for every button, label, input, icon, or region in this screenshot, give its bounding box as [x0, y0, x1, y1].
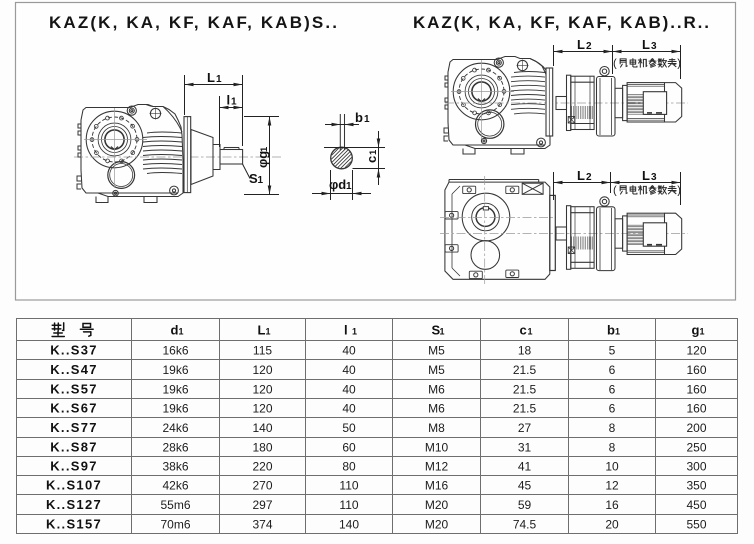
motor body	[627, 83, 664, 122]
motor fins (horizontal)	[627, 225, 643, 245]
bell rib hatch	[572, 237, 593, 250]
right-top side tabs	[444, 76, 448, 141]
left top lug hole	[150, 108, 160, 118]
svg-text:8: 8	[609, 441, 616, 455]
lifting eye	[600, 197, 609, 206]
svg-text:M8: M8	[428, 421, 445, 435]
svg-text:140: 140	[339, 518, 359, 532]
svg-text:1: 1	[231, 97, 237, 108]
right-top bore keyway	[478, 99, 485, 102]
bell clamp detail	[568, 117, 575, 124]
svg-text:K..S57: K..S57	[50, 382, 98, 397]
svg-text:L: L	[642, 37, 650, 52]
label S1 with leader	[243, 164, 251, 179]
svg-text:74.5: 74.5	[513, 518, 537, 532]
svg-text:M5: M5	[428, 363, 445, 377]
motor cap	[665, 83, 682, 122]
motor front flange	[623, 85, 628, 120]
svg-text:1: 1	[258, 175, 264, 186]
svg-text:16: 16	[605, 498, 619, 512]
svg-text:6: 6	[609, 383, 616, 397]
left flange bolt holes	[90, 116, 139, 163]
dimension c1	[324, 131, 385, 185]
svg-text:φd: φd	[329, 177, 346, 192]
svg-text:1: 1	[259, 146, 270, 152]
drawing area frame	[16, 3, 736, 301]
svg-text:20: 20	[605, 518, 619, 532]
svg-text:b: b	[355, 110, 363, 125]
motor mounting boss	[615, 88, 623, 117]
motor terminal box	[643, 223, 666, 246]
svg-text:21.5: 21.5	[513, 383, 537, 397]
svg-text:27: 27	[518, 421, 532, 435]
svg-text:l: l	[344, 323, 348, 338]
svg-text:19k6: 19k6	[162, 383, 188, 397]
svg-text:115: 115	[253, 344, 272, 358]
left ribbed cone fins	[143, 132, 182, 174]
svg-text:c: c	[364, 156, 379, 163]
svg-text:1: 1	[179, 327, 184, 337]
svg-text:21.5: 21.5	[513, 363, 537, 377]
label phi-g1	[255, 146, 270, 168]
right-top bottom bolts	[537, 138, 546, 147]
svg-text:28k6: 28k6	[162, 441, 188, 455]
left output shaft with key	[220, 150, 243, 165]
svg-text:(: (	[613, 185, 617, 197]
svg-text:K..S67: K..S67	[50, 401, 98, 416]
right-top end plate	[546, 68, 553, 136]
shaft cross-section circle	[331, 147, 353, 169]
svg-text:3: 3	[651, 172, 657, 183]
svg-text:21.5: 21.5	[513, 402, 537, 416]
svg-text:16k6: 16k6	[162, 344, 188, 358]
right-top dimension extension lines	[554, 45, 681, 79]
svg-text:): )	[677, 185, 681, 197]
svg-text:L: L	[642, 168, 650, 183]
svg-text:140: 140	[252, 421, 272, 435]
left output cone	[191, 130, 213, 185]
svg-text:1: 1	[440, 327, 445, 337]
right-top lug hole	[517, 60, 527, 70]
svg-text:70m6: 70m6	[160, 518, 190, 532]
svg-text:M6: M6	[428, 383, 445, 397]
coupling bell housing	[567, 206, 571, 270]
left housing side tabs	[77, 124, 81, 189]
svg-text:55m6: 55m6	[160, 498, 190, 512]
svg-text:59: 59	[518, 498, 532, 512]
svg-text:40: 40	[342, 363, 356, 377]
svg-text:19k6: 19k6	[162, 363, 188, 377]
svg-text:80: 80	[342, 460, 356, 474]
coupling neck	[556, 97, 567, 110]
svg-text:374: 374	[252, 518, 272, 532]
svg-text:220: 220	[252, 460, 272, 474]
left flange centerlines	[84, 139, 147, 141]
svg-text:200: 200	[686, 421, 706, 435]
svg-text:KAZ(K, KA, KF, KAF, KAB)..R..: KAZ(K, KA, KF, KAF, KAB)..R..	[413, 13, 710, 32]
svg-text:b: b	[607, 323, 615, 338]
svg-text:2: 2	[586, 41, 592, 52]
right-bottom inner outline	[452, 186, 460, 276]
svg-text:60: 60	[342, 441, 356, 455]
motor body	[627, 213, 664, 254]
svg-text:M6: M6	[428, 402, 445, 416]
svg-text:M20: M20	[425, 518, 449, 532]
svg-text:L: L	[577, 37, 585, 52]
svg-text:(: (	[613, 58, 617, 70]
svg-text:KAZ(K, KA, KF, KAF, KAB)S..: KAZ(K, KA, KF, KAF, KAB)S..	[49, 13, 338, 32]
lifting eye	[600, 67, 609, 76]
right-top bottom feet	[463, 149, 475, 155]
svg-text:L: L	[258, 323, 266, 338]
svg-text:350: 350	[686, 479, 706, 493]
svg-text:1: 1	[216, 74, 222, 85]
table header xing hao	[52, 323, 64, 337]
motor front flange	[623, 216, 628, 251]
dimension phi-g1	[244, 117, 279, 195]
motor terminal box	[643, 92, 666, 115]
svg-text:K..S47: K..S47	[50, 362, 98, 377]
right-top bottom circle	[476, 110, 504, 138]
svg-text:50: 50	[342, 421, 356, 435]
svg-text:550: 550	[686, 518, 706, 532]
keyway slot lines	[339, 114, 341, 150]
svg-text:1: 1	[368, 149, 379, 155]
svg-text:): )	[677, 58, 681, 70]
svg-text:M10: M10	[425, 441, 449, 455]
bell rib hatch	[572, 106, 593, 119]
svg-text:6: 6	[609, 402, 616, 416]
svg-text:K..S77: K..S77	[50, 420, 98, 435]
dimension L1 extension lines	[184, 75, 186, 115]
svg-text:180: 180	[252, 441, 272, 455]
motor mounting boss	[615, 219, 623, 248]
svg-text:160: 160	[686, 383, 706, 397]
svg-text:8: 8	[609, 421, 616, 435]
svg-text:K..S37: K..S37	[50, 343, 98, 358]
svg-text:3: 3	[651, 41, 657, 52]
left output axis centerline	[74, 156, 282, 158]
section hatching	[331, 148, 351, 168]
svg-text:24k6: 24k6	[162, 421, 188, 435]
right-top centerlines	[451, 91, 514, 93]
svg-text:d: d	[171, 323, 179, 338]
svg-text:38k6: 38k6	[162, 460, 188, 474]
adapter disc	[597, 77, 616, 137]
svg-text:120: 120	[252, 383, 272, 397]
right-top flange bolts	[457, 68, 506, 115]
svg-text:K..S127: K..S127	[46, 497, 102, 512]
svg-text:M20: M20	[425, 498, 449, 512]
left gearbox housing outline	[81, 105, 183, 197]
right-bottom lower circle	[471, 241, 500, 270]
svg-text:1: 1	[528, 327, 533, 337]
motor fins (horizontal)	[627, 95, 643, 115]
svg-text:12: 12	[605, 479, 619, 493]
svg-text:K..S97: K..S97	[50, 459, 98, 474]
dimension b1 line	[325, 124, 359, 126]
dimension phi-d1	[312, 170, 371, 200]
svg-text:M12: M12	[425, 460, 449, 474]
svg-text:160: 160	[686, 402, 706, 416]
svg-text:2: 2	[586, 172, 592, 183]
coupling bell housing	[567, 75, 571, 130]
svg-text:K..S157: K..S157	[46, 517, 102, 532]
svg-text:5: 5	[609, 344, 616, 358]
svg-text:1: 1	[346, 181, 352, 192]
right-top rib fins	[511, 72, 545, 114]
svg-text:K..S107: K..S107	[46, 478, 102, 493]
svg-text:110: 110	[339, 498, 358, 512]
right-bottom dimension lines	[554, 172, 681, 205]
svg-text:120: 120	[252, 363, 272, 377]
svg-text:19k6: 19k6	[162, 402, 188, 416]
left end plate	[184, 117, 191, 193]
left breather plug	[127, 106, 136, 115]
svg-text:1: 1	[352, 327, 357, 337]
svg-text:297: 297	[252, 498, 272, 512]
svg-text:31: 31	[518, 441, 532, 455]
svg-text:φg: φg	[255, 151, 270, 168]
left bore keyway	[111, 147, 118, 150]
svg-text:41: 41	[518, 460, 532, 474]
spec table grid	[17, 319, 738, 534]
right-bottom housing outline	[445, 182, 550, 279]
svg-text:40: 40	[342, 383, 356, 397]
motor cap	[665, 213, 682, 254]
label c1	[364, 149, 379, 163]
left bottom bolts	[170, 186, 179, 195]
right-bottom big gear circle	[462, 193, 510, 241]
svg-text:M5: M5	[428, 344, 445, 358]
right-top gearbox housing outline	[448, 57, 550, 149]
svg-text:270: 270	[252, 479, 272, 493]
left bottom feet	[96, 197, 108, 203]
svg-text:18: 18	[518, 344, 532, 358]
svg-text:45: 45	[518, 479, 532, 493]
svg-text:1: 1	[364, 114, 370, 125]
svg-text:L: L	[577, 168, 585, 183]
right-top flange circles	[453, 63, 510, 120]
svg-text:1: 1	[700, 327, 705, 337]
svg-text:10: 10	[605, 460, 619, 474]
svg-text:K..S87: K..S87	[50, 440, 98, 455]
svg-text:6: 6	[609, 363, 616, 377]
right-bottom bolt pads	[463, 186, 476, 193]
svg-text:110: 110	[339, 479, 358, 493]
right-bottom end plate	[550, 195, 556, 270]
svg-text:L: L	[207, 70, 215, 85]
coupling neck	[556, 227, 567, 240]
svg-text:42k6: 42k6	[162, 479, 188, 493]
svg-text:1: 1	[266, 327, 271, 337]
adapter disc	[597, 207, 616, 271]
right-bottom centerlines	[440, 217, 556, 219]
svg-text:l: l	[227, 93, 231, 108]
svg-text:c: c	[520, 323, 527, 338]
dimension l1 line	[220, 107, 243, 109]
left input flange circles	[86, 111, 143, 168]
svg-text:120: 120	[686, 344, 706, 358]
svg-text:300: 300	[686, 460, 706, 474]
dimension L1 line	[185, 84, 243, 86]
svg-text:M16: M16	[425, 479, 449, 493]
left bottom inspection circle	[108, 162, 135, 189]
right-top breather plug	[494, 58, 503, 67]
right-bottom X-box	[522, 183, 543, 194]
bell clamp detail	[568, 247, 575, 254]
svg-text:1: 1	[615, 327, 620, 337]
svg-text:250: 250	[686, 441, 706, 455]
svg-text:160: 160	[686, 363, 706, 377]
svg-text:40: 40	[342, 402, 356, 416]
svg-text:40: 40	[342, 344, 356, 358]
svg-text:120: 120	[252, 402, 272, 416]
svg-text:g: g	[692, 323, 700, 338]
svg-text:450: 450	[686, 498, 706, 512]
